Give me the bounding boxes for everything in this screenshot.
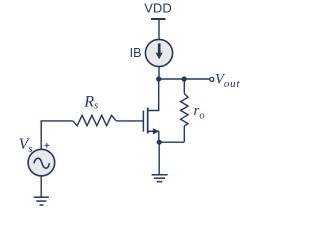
node drain junction — [156, 76, 161, 81]
power supply VDD bar — [151, 18, 166, 20]
wire output rail — [159, 78, 210, 80]
current source IB — [145, 39, 172, 66]
node source junction — [157, 140, 162, 145]
ground left — [34, 197, 49, 205]
terminal Vout open circle — [210, 77, 214, 81]
source Vs — [28, 149, 55, 176]
label plus polarity — [44, 143, 49, 148]
transistor M1 — [143, 108, 159, 135]
node ro top junction — [182, 76, 187, 81]
wire ro bottom to source node — [159, 141, 184, 143]
svg-text:Vout: Vout — [215, 72, 240, 90]
wire source node to ground — [158, 142, 160, 174]
svg-text:VDD: VDD — [144, 1, 171, 16]
svg-text:IB: IB — [130, 46, 142, 60]
svg-text:Rs: Rs — [83, 93, 98, 111]
wire Rs to gate — [116, 120, 143, 122]
ground right — [152, 175, 168, 182]
resistor ro — [181, 79, 188, 142]
svg-text:ro: ro — [194, 103, 205, 121]
wire current source to drain node — [158, 66, 160, 79]
resistor Rs — [73, 115, 117, 125]
wire VDD bar to current source — [158, 19, 160, 40]
wire transistor source to source node — [158, 131, 160, 142]
wire Vs to ground — [40, 176, 42, 197]
svg-text:Vs: Vs — [19, 136, 33, 155]
wire Vs to Rs corner — [41, 121, 72, 150]
wire drain node to transistor drain — [148, 79, 159, 111]
